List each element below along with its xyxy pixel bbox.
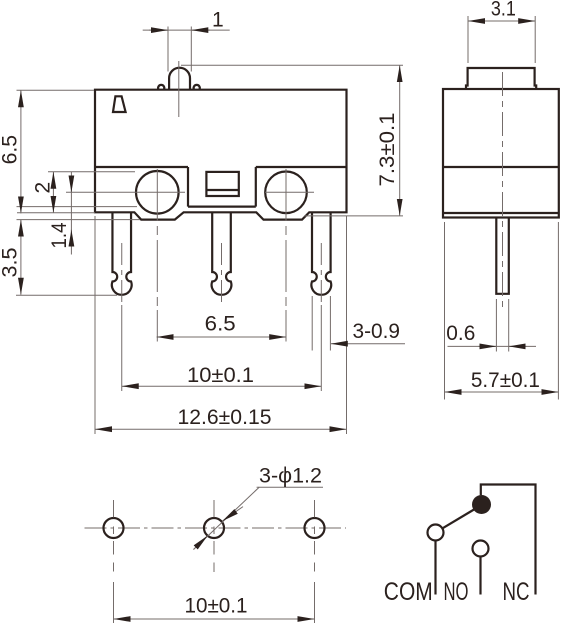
svg-text:NO: NO bbox=[444, 578, 469, 606]
dimension 1.4 arrows bbox=[70, 178, 72, 192]
middle window rect bbox=[206, 172, 238, 196]
dimension 5.7±0.1 line bbox=[445, 391, 559, 393]
pin 3 (right) bbox=[311, 212, 331, 294]
NO wire bbox=[479, 557, 481, 595]
hole3 ext dash+line bbox=[314, 563, 316, 624]
pin 1 (left) bbox=[112, 212, 132, 294]
body left ext bbox=[94, 216, 96, 434]
3-phi1.2 leader arrow upper bbox=[222, 507, 243, 521]
pin3 side ext lines (for 3-0.9) bbox=[312, 296, 330, 351]
pin3 centerline bbox=[320, 243, 322, 305]
pin 2 (middle) bbox=[212, 212, 232, 294]
left circle vertical centerline bbox=[156, 169, 158, 310]
dimension 1 (plunger width) ext lines bbox=[168, 27, 191, 72]
dimension 7.3±0.1 line bbox=[399, 65, 401, 216]
side base strip line bbox=[443, 212, 559, 214]
svg-text:7.3±0.1: 7.3±0.1 bbox=[376, 113, 399, 187]
svg-text:3.1: 3.1 bbox=[491, 0, 516, 21]
pin1 center ext bbox=[121, 305, 123, 391]
dimension 12.6±0.15 line bbox=[95, 428, 347, 430]
3-phi1.2 underline bbox=[257, 486, 323, 488]
right boss hole circle bbox=[265, 172, 307, 214]
svg-text:12.6±0.15: 12.6±0.15 bbox=[178, 406, 272, 429]
left ext: recess bottom (6.5 / 2) bbox=[17, 206, 138, 208]
plunger centerline bbox=[178, 61, 180, 117]
dimension 3.1 line bbox=[468, 20, 535, 22]
svg-text:1: 1 bbox=[212, 9, 224, 32]
ext line circle top (for 2) bbox=[48, 171, 135, 173]
switch body outline bbox=[95, 90, 347, 220]
COM terminal circle bbox=[428, 525, 444, 541]
3-phi1.2 text phi stem bbox=[284, 467, 286, 474]
svg-text:6.5: 6.5 bbox=[205, 313, 236, 336]
3.1 ext lines bbox=[468, 16, 535, 63]
right circle horizontal centerline bbox=[265, 191, 314, 193]
dimension 6.5 bottom line (circle centers) bbox=[157, 336, 287, 338]
COM wire bbox=[434, 541, 436, 595]
svg-text:5.7±0.1: 5.7±0.1 bbox=[471, 369, 540, 392]
dimension 10±0.1 pcb line bbox=[114, 618, 315, 620]
waist line right segment bbox=[256, 166, 347, 168]
step vertical right bbox=[255, 167, 257, 207]
svg-text:3.5: 3.5 bbox=[0, 248, 22, 278]
NC contact (filled) bbox=[472, 495, 491, 514]
middle window divider bbox=[206, 189, 238, 191]
svg-text:3-φ1.2: 3-φ1.2 bbox=[259, 465, 322, 488]
NO terminal circle bbox=[473, 541, 489, 557]
dimension 10±0.1 front line bbox=[122, 385, 322, 387]
left ext: body top bbox=[17, 89, 95, 91]
hole 2 crosshair bbox=[213, 500, 215, 572]
step vertical left bbox=[187, 167, 189, 207]
side body bbox=[443, 89, 559, 218]
waist line left segment bbox=[95, 166, 188, 168]
dimension 0.6 arrows bbox=[479, 345, 497, 347]
dimension 2 line bbox=[52, 172, 54, 213]
body right ext bbox=[346, 216, 348, 434]
dimension 1 line bbox=[143, 29, 230, 31]
hole 1 crosshair bbox=[113, 500, 115, 555]
hole 2 bbox=[204, 518, 224, 538]
right bump bbox=[194, 85, 200, 90]
lever wire bbox=[442, 510, 474, 529]
pin1 centerline bbox=[121, 243, 123, 305]
svg-text:10±0.1: 10±0.1 bbox=[187, 364, 254, 387]
wire riser and NC wire bbox=[481, 485, 536, 595]
ext line body bottom right (for 7.3) bbox=[304, 215, 403, 217]
left boss hole circle bbox=[136, 171, 179, 214]
plunger button dome bbox=[169, 68, 190, 90]
dimension 0.6 line bbox=[448, 345, 537, 347]
ext line bottom edge left (for 1.4) bbox=[17, 212, 95, 214]
svg-text:10±0.1: 10±0.1 bbox=[185, 595, 248, 618]
ext line pin tip (for 3.5) bbox=[16, 294, 117, 296]
right circle vertical centerline bbox=[285, 169, 287, 310]
ext line dome top (for 7.3) bbox=[181, 64, 403, 66]
3-phi1.2 leader diagonal bbox=[194, 487, 260, 549]
svg-text:6.5: 6.5 bbox=[0, 135, 22, 165]
side button bbox=[466, 68, 536, 89]
left circle horizontal centerline / ext bbox=[66, 191, 185, 193]
side pin ext lines bbox=[496, 299, 508, 352]
side waist line bbox=[443, 166, 559, 168]
dimension 1 arrows bbox=[149, 29, 168, 31]
hole 3 bbox=[305, 518, 325, 538]
dimension 6.5 left line bbox=[20, 90, 22, 213]
side centerline bbox=[502, 72, 504, 307]
svg-text:2: 2 bbox=[32, 182, 55, 194]
3-phi1.2 leader arrow lower bbox=[194, 536, 208, 550]
svg-text:NC: NC bbox=[503, 578, 530, 606]
pin2 centerline bbox=[221, 243, 223, 303]
3-0.9 leader line bbox=[331, 343, 405, 345]
hole1 ext dash+line bbox=[113, 563, 115, 624]
keying mark trapezoid bbox=[113, 96, 126, 112]
side body ext lines bbox=[445, 222, 559, 400]
svg-text:1.4: 1.4 bbox=[48, 222, 71, 248]
dimension 1.4 line bbox=[70, 172, 72, 255]
middle recess bottom edge bbox=[188, 206, 256, 208]
horizontal centerline bbox=[85, 527, 347, 529]
pin3 center ext bbox=[320, 305, 322, 391]
hole 3 crosshair bbox=[314, 500, 316, 555]
ext line foot bottom (for 3.5) bbox=[17, 219, 141, 221]
side pin bbox=[496, 218, 509, 294]
dimension 3.5 line bbox=[20, 220, 22, 295]
svg-text:0.6: 0.6 bbox=[446, 322, 475, 345]
svg-text:COM: COM bbox=[384, 578, 433, 606]
hole 1 bbox=[104, 518, 124, 538]
left bump bbox=[158, 85, 164, 90]
svg-text:3-0.9: 3-0.9 bbox=[353, 320, 401, 343]
